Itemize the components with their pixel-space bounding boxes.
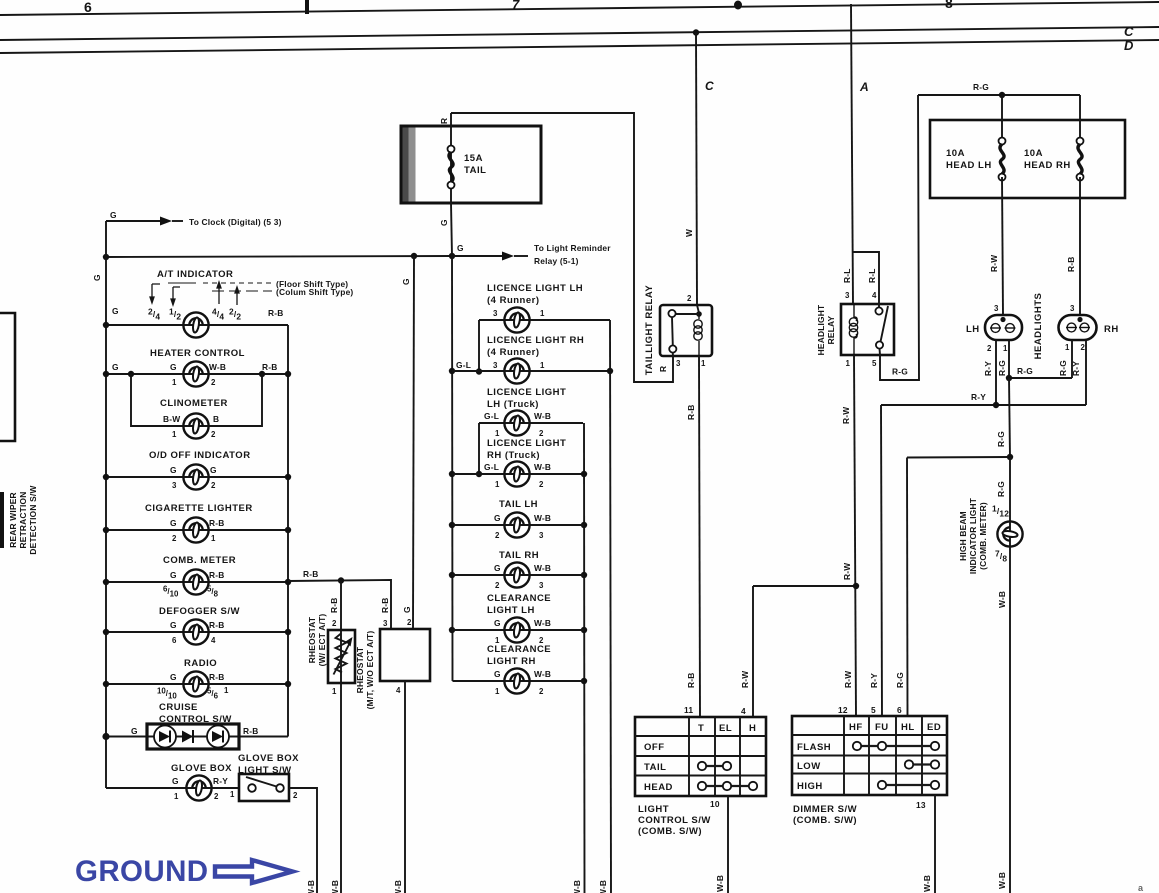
labels pins <box>493 309 545 318</box>
svg-text:1: 1 <box>846 359 851 368</box>
svg-text:R-G: R-G <box>895 672 905 688</box>
svg-text:R-L: R-L <box>867 268 877 283</box>
rheostat R1 box <box>328 630 355 683</box>
svg-text:W-B: W-B <box>922 875 932 892</box>
label 1/12 <box>992 504 1009 519</box>
svg-text:R-G: R-G <box>996 431 1006 447</box>
svg-text:R: R <box>658 366 668 372</box>
label R-G <box>892 367 908 377</box>
svg-text:A: A <box>859 80 869 94</box>
svg-text:(COMB. S/W): (COMB. S/W) <box>638 826 702 837</box>
svg-text:HEADLIGHTS: HEADLIGHTS <box>1033 293 1044 360</box>
svg-text:LICENCE LIGHT RH: LICENCE LIGHT RH <box>487 335 584 346</box>
row glove box wire <box>106 787 239 789</box>
headlight relay coil <box>849 304 857 355</box>
svg-text:W-B: W-B <box>393 880 403 893</box>
svg-text:(COMB. METER): (COMB. METER) <box>978 502 988 570</box>
label R-B rotated (rheostat2) <box>380 598 390 614</box>
svg-text:CLINOMETER: CLINOMETER <box>160 398 228 409</box>
svg-text:G: G <box>92 274 102 281</box>
fuse 15A TAIL element <box>448 146 455 189</box>
svg-text:G: G <box>172 776 179 786</box>
lamp defogger <box>183 619 208 644</box>
svg-text:EL: EL <box>719 723 732 734</box>
label 1 <box>1065 343 1070 352</box>
label R <box>439 118 449 124</box>
wire RH pin1 R-G <box>1071 340 1073 378</box>
label 3 <box>845 291 850 300</box>
label R <box>658 366 668 372</box>
title CIGARETTE LIGHTER <box>145 503 253 514</box>
svg-text:R-G: R-G <box>996 481 1006 497</box>
wire tail RH row <box>452 574 584 576</box>
svg-text:RH (Truck): RH (Truck) <box>487 450 540 461</box>
label R-B rotated <box>329 598 339 614</box>
label 2 <box>987 344 992 353</box>
label 1 <box>1003 344 1008 353</box>
labels radio row <box>157 672 229 701</box>
svg-text:6: 6 <box>172 636 177 645</box>
svg-text:R-W: R-W <box>842 563 852 580</box>
label R-L pin3 <box>842 268 852 283</box>
label RHEOSTAT (M/T, W/O ECT A/T) <box>355 631 375 710</box>
svg-text:TAILLIGHT RELAY: TAILLIGHT RELAY <box>644 285 655 376</box>
label HEADLIGHTS <box>1033 293 1044 360</box>
label R-Y <box>1071 361 1081 376</box>
svg-text:3: 3 <box>994 304 999 313</box>
svg-text:LH (Truck): LH (Truck) <box>487 399 539 410</box>
svg-text:1: 1 <box>540 361 545 370</box>
label G <box>110 210 117 220</box>
label RHEOSTAT (W/ ECT A/T) <box>307 614 327 667</box>
svg-text:4: 4 <box>211 636 216 645</box>
svg-text:W-B: W-B <box>598 880 608 893</box>
label 13 <box>916 800 926 810</box>
svg-text:2: 2 <box>293 791 298 800</box>
svg-text:B: B <box>213 414 219 424</box>
svg-text:R-W: R-W <box>841 407 851 424</box>
labels <box>494 618 551 645</box>
wire rheostat2 pin4 down <box>404 681 406 893</box>
svg-text:2: 2 <box>211 430 216 439</box>
svg-text:RH: RH <box>1104 324 1119 335</box>
row cigarette wire <box>103 527 291 533</box>
wire high beam W-B down <box>1009 547 1011 893</box>
label W-B <box>997 591 1007 608</box>
junction <box>449 471 455 477</box>
svg-text:G-L: G-L <box>484 411 499 421</box>
svg-text:REAR WIPER: REAR WIPER <box>8 492 18 548</box>
svg-text:G: G <box>170 465 177 475</box>
grid number 7 <box>512 0 520 12</box>
svg-text:(Colum Shift Type): (Colum Shift Type) <box>276 287 353 297</box>
cruise control S/W diode box <box>147 724 239 749</box>
svg-text:CLEARANCE: CLEARANCE <box>487 644 551 655</box>
title RADIO <box>184 658 217 669</box>
lamp clearance light LH <box>504 617 529 642</box>
svg-text:2: 2 <box>495 581 500 590</box>
svg-text:2: 2 <box>539 480 544 489</box>
title LICENCE LIGHT RH (4 Runner) <box>487 335 584 358</box>
label RH <box>1104 324 1119 335</box>
label LOW <box>797 761 821 772</box>
label OFF <box>644 742 665 753</box>
label R-B <box>303 569 319 579</box>
svg-text:R-L: R-L <box>842 268 852 283</box>
svg-text:RELAY: RELAY <box>826 315 836 344</box>
label 6 <box>897 705 902 715</box>
label 1 <box>332 687 337 696</box>
left edge box (partial) <box>0 313 15 441</box>
svg-text:TAIL RH: TAIL RH <box>499 550 539 561</box>
row radio wire <box>103 681 291 687</box>
svg-text:W-B: W-B <box>572 880 582 893</box>
svg-text:HEADLIGHT: HEADLIGHT <box>816 304 826 355</box>
lamp O/D off indicator <box>183 464 208 489</box>
title GLOVE BOX <box>171 763 232 774</box>
svg-text:G: G <box>170 570 177 580</box>
label W <box>684 229 694 237</box>
label 3 <box>383 619 388 628</box>
head fuse box <box>930 120 1125 198</box>
svg-text:3: 3 <box>845 291 850 300</box>
svg-text:1: 1 <box>540 309 545 318</box>
svg-text:G: G <box>402 606 412 613</box>
label LH <box>966 324 980 335</box>
wire R-G down from link <box>1009 378 1010 457</box>
lamp tail LH <box>504 512 529 537</box>
label 4 <box>872 291 877 300</box>
svg-text:HF: HF <box>849 722 863 733</box>
GROUND block arrow <box>215 860 293 883</box>
svg-text:W-B: W-B <box>209 362 226 372</box>
wire headlight relay pin5 R-G up <box>880 95 919 380</box>
diode D3 <box>207 726 229 748</box>
title TAIL LH <box>499 499 538 510</box>
svg-text:R-B: R-B <box>209 620 225 630</box>
bus line C <box>0 27 1159 40</box>
svg-text:6: 6 <box>897 705 902 715</box>
wire LH pin2 R-Y <box>995 340 997 405</box>
row heater wire <box>103 371 291 377</box>
svg-text:ED: ED <box>927 722 941 733</box>
light control TAIL contacts <box>698 762 731 770</box>
labels defogger row <box>170 620 225 645</box>
label W-B rheostat1 out <box>330 880 340 893</box>
label 2 <box>407 618 412 627</box>
svg-text:2: 2 <box>211 378 216 387</box>
wire clearance RH row <box>453 680 585 682</box>
lamp tail RH <box>504 562 529 587</box>
label R-W vert <box>740 671 750 688</box>
wire light control output W-B <box>727 796 729 893</box>
lamp comb meter <box>183 569 208 594</box>
label 10A HEAD LH <box>946 148 992 171</box>
svg-text:1: 1 <box>1003 344 1008 353</box>
rheostat R2 box <box>380 629 430 681</box>
svg-text:G-L: G-L <box>456 360 471 370</box>
dimmer LOW contacts <box>905 760 939 768</box>
svg-text:G: G <box>494 563 501 573</box>
svg-text:R-B: R-B <box>1066 257 1076 273</box>
lamp chain left vertical G <box>451 256 454 681</box>
labels heater row <box>112 362 278 387</box>
wire W-B inner right vertical <box>581 423 587 893</box>
svg-text:R-G: R-G <box>1017 366 1033 376</box>
svg-text:4: 4 <box>741 706 746 716</box>
label R-L pin4 <box>867 268 877 283</box>
title GLOVE BOX LIGHT S/W <box>238 753 299 776</box>
svg-text:W-B: W-B <box>306 880 316 893</box>
svg-text:G: G <box>170 362 177 372</box>
svg-text:R-Y: R-Y <box>213 776 228 786</box>
lamp heater control <box>183 361 208 386</box>
row A/T indicator wire <box>103 322 288 328</box>
label C (node) <box>705 79 714 93</box>
svg-text:5: 5 <box>871 705 876 715</box>
label R-G above dimmer <box>895 672 905 688</box>
svg-text:G: G <box>170 518 177 528</box>
node C junction on bus C <box>693 29 699 35</box>
svg-text:R-B: R-B <box>686 673 696 689</box>
labels switch pins <box>230 790 298 800</box>
svg-text:2: 2 <box>407 618 412 627</box>
diode D2 <box>182 730 193 743</box>
label 3 <box>1070 304 1075 313</box>
lamp A/T indicator <box>183 312 208 337</box>
dimmer HIGH contacts <box>878 781 939 789</box>
svg-text:TAIL LH: TAIL LH <box>499 499 538 510</box>
label W-B <box>922 875 932 892</box>
svg-text:W-B: W-B <box>534 513 551 523</box>
junction <box>449 522 455 528</box>
grid mark y <box>734 1 742 10</box>
title LICENCE LIGHT LH (4 Runner) <box>487 283 583 306</box>
wire fuse feed to taillight relay pin 3 <box>451 113 673 382</box>
svg-text:W-B: W-B <box>534 618 551 628</box>
label R-B <box>1066 257 1076 273</box>
svg-text:W-B: W-B <box>715 875 725 892</box>
labels <box>484 411 551 438</box>
labels cigarette row <box>170 518 225 543</box>
svg-text:G-L: G-L <box>484 462 499 472</box>
wire R-B comb meter to rheostats <box>288 577 391 629</box>
labels <box>494 563 551 590</box>
label (Colum Shift Type) <box>276 287 353 297</box>
label LIGHT CONTROL S/W (COMB. S/W) <box>638 804 711 837</box>
label 2 <box>1081 343 1086 352</box>
wire R-G to high beam <box>1009 457 1011 521</box>
left edge black bar <box>0 492 4 548</box>
svg-text:3: 3 <box>1070 304 1075 313</box>
label R-W <box>841 407 851 424</box>
svg-text:(4 Runner): (4 Runner) <box>487 295 540 306</box>
title A/T INDICATOR <box>157 269 233 280</box>
taillight relay contacts <box>668 305 701 357</box>
svg-text:W-B: W-B <box>534 669 551 679</box>
svg-text:2: 2 <box>172 534 177 543</box>
svg-text:B-W: B-W <box>163 414 180 424</box>
label R-W <box>989 255 999 272</box>
fuse 15A TAIL box <box>401 126 541 203</box>
label W-B <box>598 880 608 893</box>
labels clinometer row <box>163 414 219 439</box>
svg-text:RHEOSTAT: RHEOSTAT <box>355 646 365 693</box>
svg-text:A/T INDICATOR: A/T INDICATOR <box>157 269 233 280</box>
light control HEAD contacts <box>698 782 757 790</box>
svg-text:HEAD: HEAD <box>644 782 673 793</box>
svg-text:GROUND: GROUND <box>75 855 209 888</box>
label R-W <box>842 563 852 580</box>
svg-text:1: 1 <box>224 686 229 695</box>
svg-text:RADIO: RADIO <box>184 658 217 669</box>
svg-text:W-B: W-B <box>534 563 551 573</box>
svg-text:2: 2 <box>539 429 544 438</box>
top frame line 1 <box>0 2 1159 15</box>
labels header HF FU HL ED <box>849 722 941 733</box>
svg-text:LICENCE LIGHT LH: LICENCE LIGHT LH <box>487 283 583 294</box>
svg-text:1: 1 <box>172 430 177 439</box>
light control switch table <box>635 717 766 796</box>
junction <box>449 253 455 259</box>
wire fuse top R <box>450 113 452 203</box>
svg-text:TAIL: TAIL <box>644 762 666 773</box>
svg-text:12: 12 <box>838 705 848 715</box>
svg-text:2: 2 <box>211 481 216 490</box>
svg-text:3: 3 <box>172 481 177 490</box>
right chain vertical R-B <box>287 325 289 737</box>
title TAIL RH <box>499 550 539 561</box>
wire fuse bottom G <box>451 203 452 256</box>
svg-text:GLOVE BOX: GLOVE BOX <box>171 763 232 774</box>
glove box light switch <box>239 774 289 801</box>
svg-text:R-Y: R-Y <box>1071 361 1081 376</box>
wire licence LH truck row <box>476 423 583 477</box>
label A (node) <box>859 80 869 94</box>
svg-text:C: C <box>1124 24 1134 39</box>
wire W-B right vertical 4runner <box>607 320 613 893</box>
svg-text:G: G <box>170 672 177 682</box>
svg-text:R-Y: R-Y <box>983 361 993 376</box>
svg-text:W-B: W-B <box>997 872 1007 889</box>
svg-text:COMB. METER: COMB. METER <box>163 555 236 566</box>
labels comb meter row <box>163 570 225 599</box>
label R-G <box>1058 360 1068 376</box>
svg-text:11: 11 <box>684 705 693 715</box>
svg-text:R-G: R-G <box>997 360 1007 376</box>
svg-text:HIGH BEAM: HIGH BEAM <box>958 511 968 561</box>
labels <box>494 513 551 540</box>
label 7/8 <box>995 549 1007 564</box>
svg-text:2: 2 <box>987 344 992 353</box>
label 10A HEAD RH <box>1024 148 1071 171</box>
label HIGH BEAM INDICATOR LIGHT (COMB. METER) <box>958 497 988 574</box>
svg-text:R-B: R-B <box>329 598 339 614</box>
label R-G <box>997 360 1007 376</box>
label 4 <box>396 686 401 695</box>
label G at fuse output <box>457 243 464 253</box>
svg-text:4: 4 <box>872 291 877 300</box>
svg-text:FU: FU <box>875 722 889 733</box>
svg-text:1: 1 <box>172 378 177 387</box>
label DIMMER S/W (COMB. S/W) <box>793 804 857 826</box>
svg-text:C: C <box>705 79 714 93</box>
label G rotated <box>92 274 102 281</box>
label 5 <box>872 359 877 368</box>
R-G top bus <box>918 92 1080 98</box>
wire tail LH row <box>452 524 584 526</box>
svg-text:HEAD LH: HEAD LH <box>946 160 992 171</box>
label R-Y above dimmer <box>869 673 879 688</box>
label TAILLIGHT RELAY <box>644 285 655 376</box>
label W-B <box>393 880 403 893</box>
label W-B <box>306 880 316 893</box>
row defogger wire <box>103 629 291 635</box>
junction <box>411 253 417 259</box>
svg-text:CRUISE: CRUISE <box>159 702 198 713</box>
wire clearance LH row <box>452 629 584 631</box>
svg-text:R-Y: R-Y <box>971 392 986 402</box>
svg-text:W-B: W-B <box>997 591 1007 608</box>
label G <box>439 219 449 226</box>
svg-text:G: G <box>112 362 119 372</box>
svg-text:HL: HL <box>901 722 915 733</box>
svg-text:R-B: R-B <box>686 405 696 421</box>
lamp clinometer <box>183 413 208 438</box>
label D <box>1124 38 1134 53</box>
svg-text:LICENCE LIGHT: LICENCE LIGHT <box>487 438 566 449</box>
title O/D OFF INDICATOR <box>149 450 251 461</box>
title CLEARANCE LIGHT RH <box>487 644 551 667</box>
label HEAD <box>644 782 673 793</box>
svg-text:G: G <box>494 618 501 628</box>
label R-B <box>686 405 696 421</box>
svg-text:1: 1 <box>174 792 179 801</box>
title CRUISE CONTROL S/W <box>159 702 232 725</box>
svg-text:(COMB. S/W): (COMB. S/W) <box>793 815 857 826</box>
title COMB. METER <box>163 555 236 566</box>
svg-text:R-W: R-W <box>843 671 853 688</box>
label (Floor Shift Type) <box>276 279 348 289</box>
wire licence RH truck row <box>452 473 584 475</box>
svg-text:R: R <box>439 118 449 124</box>
svg-text:H: H <box>749 723 756 734</box>
label G rotated low <box>402 606 412 613</box>
labels cruise row <box>131 726 259 736</box>
wire taillight relay pin1 R-B down <box>699 356 700 717</box>
diode D1 <box>154 726 176 748</box>
svg-text:INDICATOR LIGHT: INDICATOR LIGHT <box>968 497 978 574</box>
svg-text:G: G <box>457 243 464 253</box>
svg-text:1: 1 <box>495 429 500 438</box>
svg-text:2: 2 <box>539 687 544 696</box>
svg-text:DIMMER S/W: DIMMER S/W <box>793 804 857 815</box>
svg-text:6: 6 <box>84 0 92 15</box>
svg-text:G: G <box>439 219 449 226</box>
wire LH pin1 R-G <box>1008 340 1010 378</box>
title CLINOMETER <box>160 398 228 409</box>
svg-text:R-W: R-W <box>989 255 999 272</box>
title LICENCE LIGHT RH (Truck) <box>487 438 566 461</box>
wire head LH fuse feed <box>1001 95 1003 144</box>
label R-G <box>996 431 1006 447</box>
svg-text:3: 3 <box>493 361 498 370</box>
row cruise wire <box>102 733 288 740</box>
svg-text:W-B: W-B <box>534 411 551 421</box>
bus line D <box>0 40 1159 53</box>
label TAIL <box>644 762 666 773</box>
svg-text:10A: 10A <box>946 148 965 159</box>
